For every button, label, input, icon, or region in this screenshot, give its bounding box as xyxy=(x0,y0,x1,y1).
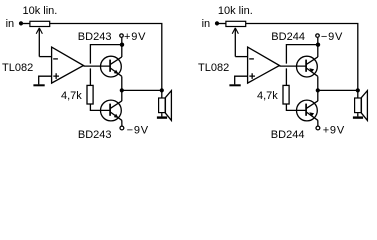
node: speaker node dot (right) xyxy=(356,88,360,92)
node: emitter junction dot (right) xyxy=(316,88,320,92)
node: input node dot (right) xyxy=(215,21,219,25)
speaker LS2 (right) xyxy=(355,90,368,120)
wire: op-amp output to Q1 base (left) xyxy=(84,65,111,67)
node: collector junction dot (right) xyxy=(316,43,320,47)
wire: R1 bottom to Q2 base (left) xyxy=(90,104,110,110)
wire: Q4 emitter to +9V terminal (right) xyxy=(317,120,319,126)
svg-text:4,7k: 4,7k xyxy=(257,90,278,102)
op-amp plus sign (right) xyxy=(249,73,255,79)
wire: non-inverting input to ground (right) xyxy=(235,76,248,84)
svg-text:BD243: BD243 xyxy=(78,31,112,43)
wire: Q2 collector up to output node (left) xyxy=(121,90,123,101)
wire: output node to speaker node (left) xyxy=(122,89,162,91)
resistor R1 4,7k (left) xyxy=(87,85,93,104)
transistor Q3 BD244 (right top) xyxy=(297,56,318,77)
op-amp U2 TL082 (right) xyxy=(248,47,280,83)
potentiometer P2 10k lin. body (right) xyxy=(226,21,246,26)
svg-text:+9V: +9V xyxy=(124,31,146,43)
wire: op-amp output to Q3 base (right) xyxy=(280,65,307,67)
transistor Q1 BD243 (left top) xyxy=(101,56,122,77)
node: emitter junction dot (left) xyxy=(120,88,124,92)
wire: feedback rail from potentiometer to speaker node (right) xyxy=(246,24,358,91)
op-amp minus sign (left) xyxy=(53,58,58,60)
wire: input dot to potentiometer (left) xyxy=(21,23,30,25)
svg-text:10k lin.: 10k lin. xyxy=(218,5,253,17)
svg-text:10k lin.: 10k lin. xyxy=(23,5,58,17)
ground (speaker, right) xyxy=(353,116,363,118)
wire: non-inverting input to ground (left) xyxy=(39,76,52,84)
transistor Q2 BD243 (left bottom) xyxy=(101,100,122,121)
svg-text:−9V: −9V xyxy=(321,31,343,43)
+9V supply terminal (right) xyxy=(316,126,320,130)
wire: wiper to op-amp inverting input (left) xyxy=(39,56,51,58)
op-amp minus sign (right) xyxy=(249,58,254,60)
transistor Q4 BD244 (right bottom) xyxy=(297,100,318,121)
wire: R2 bottom to Q4 base (right) xyxy=(286,104,306,110)
potentiometer wiper arrow (right) xyxy=(234,28,236,57)
wire: feedback rail from potentiometer to speaker node (left) xyxy=(50,24,162,91)
op-amp plus sign (left) xyxy=(53,73,59,79)
wire: output node to speaker node (right) xyxy=(318,89,358,91)
svg-text:TL082: TL082 xyxy=(198,62,229,74)
svg-text:in: in xyxy=(6,18,15,30)
wire: -9V rail feed to 4,7k resistor with crossover gap (right) xyxy=(286,45,317,86)
wire: Q1 collector to +9V terminal (left) xyxy=(121,38,123,57)
wire: input dot to potentiometer (right) xyxy=(217,23,226,25)
node: speaker node dot (left) xyxy=(160,88,164,92)
wire: Q1 emitter down to output node (left) xyxy=(121,76,123,90)
wire: Q4 collector up to output node (right) xyxy=(317,90,319,101)
-9V supply terminal (left) xyxy=(120,126,124,130)
-9V supply terminal (right) xyxy=(316,34,320,38)
ground (op-amp + input, right) xyxy=(229,84,240,86)
op-amp U1 TL082 (left) xyxy=(52,47,84,83)
svg-text:BD243: BD243 xyxy=(78,129,112,141)
svg-text:BD244: BD244 xyxy=(271,129,305,141)
ground (op-amp + input, left) xyxy=(33,84,44,86)
ground (speaker, left) xyxy=(157,116,167,118)
svg-text:+9V: +9V xyxy=(323,125,345,137)
potentiometer P1 10k lin. body (left) xyxy=(30,21,50,26)
potentiometer wiper arrow (left) xyxy=(38,28,40,57)
speaker LS1 (left) xyxy=(159,90,172,120)
resistor R2 4,7k (right) xyxy=(283,85,289,104)
wire: Q2 emitter to -9V terminal (left) xyxy=(121,120,123,126)
svg-text:in: in xyxy=(202,18,211,30)
wire: wiper to op-amp inverting input (right) xyxy=(235,56,247,58)
+9V supply terminal (left) xyxy=(120,34,124,38)
node: input node dot (left) xyxy=(19,21,23,25)
node: collector junction dot (left) xyxy=(120,43,124,47)
wire: +9V rail feed to 4,7k resistor with crossover gap (left) xyxy=(90,45,121,86)
wire: Q3 collector to -9V terminal (right) xyxy=(317,38,319,57)
svg-text:TL082: TL082 xyxy=(2,62,33,74)
svg-text:4,7k: 4,7k xyxy=(61,90,82,102)
wire: Q3 emitter down to output node (right) xyxy=(317,76,319,90)
svg-text:BD244: BD244 xyxy=(271,31,305,43)
svg-text:−9V: −9V xyxy=(127,125,149,137)
